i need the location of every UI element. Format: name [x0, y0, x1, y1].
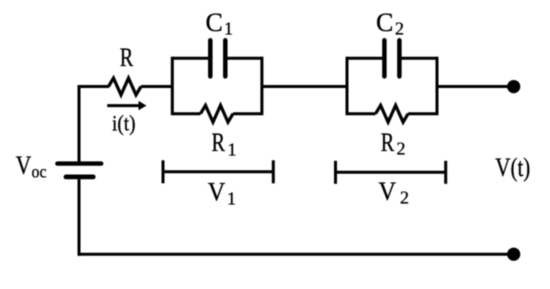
svg-text:V: V [208, 178, 226, 207]
terminal dot : positive output [507, 80, 520, 93]
wire: battery - terminal down to bottom rail [78, 179, 81, 256]
RC block 2 : left edge [346, 57, 349, 115]
RC block 1 : right edge [260, 57, 263, 115]
svg-text:2: 2 [397, 138, 406, 158]
svg-text:1: 1 [228, 139, 237, 159]
current arrow i(t) head [139, 101, 147, 110]
wire: bottom rail from source to negative output terminal [78, 253, 513, 256]
wire: resistor R to RC block 1 [141, 85, 172, 88]
V1 measurement bracket : bar [163, 170, 273, 173]
svg-text:V: V [16, 151, 32, 180]
RC block 1 : bottom edge left segment to R1 [172, 112, 200, 115]
svg-text:R: R [212, 128, 226, 157]
RC block 1 : top edge right segment from C1 plate [227, 57, 262, 60]
svg-text:oc: oc [32, 162, 47, 182]
wire: RC block 1 to RC block 2 [262, 85, 347, 88]
resistor R1 zigzag [201, 105, 234, 122]
svg-text:R: R [381, 128, 395, 157]
RC block 2 : top edge right segment from C2 plate [401, 57, 437, 60]
capacitor C2 : left plate [382, 40, 387, 76]
svg-text:i(t): i(t) [112, 110, 136, 135]
RC block 1 : top edge left segment to C1 plate [172, 57, 208, 60]
terminal dot : negative output [507, 248, 520, 261]
capacitor C2 : right plate [397, 40, 402, 76]
svg-text:1: 1 [224, 19, 233, 39]
V2 measurement bracket : left tick [334, 161, 337, 184]
RC block 2 : bottom edge left segment to R2 [347, 112, 376, 115]
svg-text:V: V [379, 177, 397, 206]
V2 measurement bracket : right tick [444, 161, 447, 184]
RC block 2 : bottom edge right segment from R2 [408, 112, 437, 115]
V1 measurement bracket : left tick [162, 160, 165, 183]
voltage source Voc (battery cell) : long plate [57, 161, 101, 165]
svg-text:R: R [120, 43, 134, 72]
current arrow i(t) shaft [107, 104, 140, 107]
svg-text:1: 1 [227, 189, 236, 209]
wire: left vertical rail from battery + terminal up and right to resistor R [79, 87, 109, 162]
voltage source Voc : short plate [66, 174, 93, 179]
wire: RC block 2 to positive output terminal [437, 85, 512, 88]
RC block 2 : top edge left segment to C2 plate [347, 57, 383, 60]
capacitor C1 : left plate [208, 40, 213, 76]
RC block 1 : bottom edge right segment from R1 [233, 112, 262, 115]
capacitor C1 : right plate [223, 40, 228, 76]
V2 measurement bracket : bar [336, 171, 446, 174]
svg-text:2: 2 [395, 18, 404, 38]
V1 measurement bracket : right tick [272, 160, 275, 183]
svg-text:2: 2 [400, 188, 409, 208]
RC block 2 : right edge [436, 57, 439, 115]
resistor R2 zigzag [376, 105, 409, 122]
svg-text:C: C [206, 8, 223, 37]
svg-text:C: C [376, 8, 393, 37]
svg-text:V(t): V(t) [495, 153, 530, 182]
RC block 1 : left edge [171, 57, 174, 115]
resistor R (series) zigzag [109, 78, 142, 95]
